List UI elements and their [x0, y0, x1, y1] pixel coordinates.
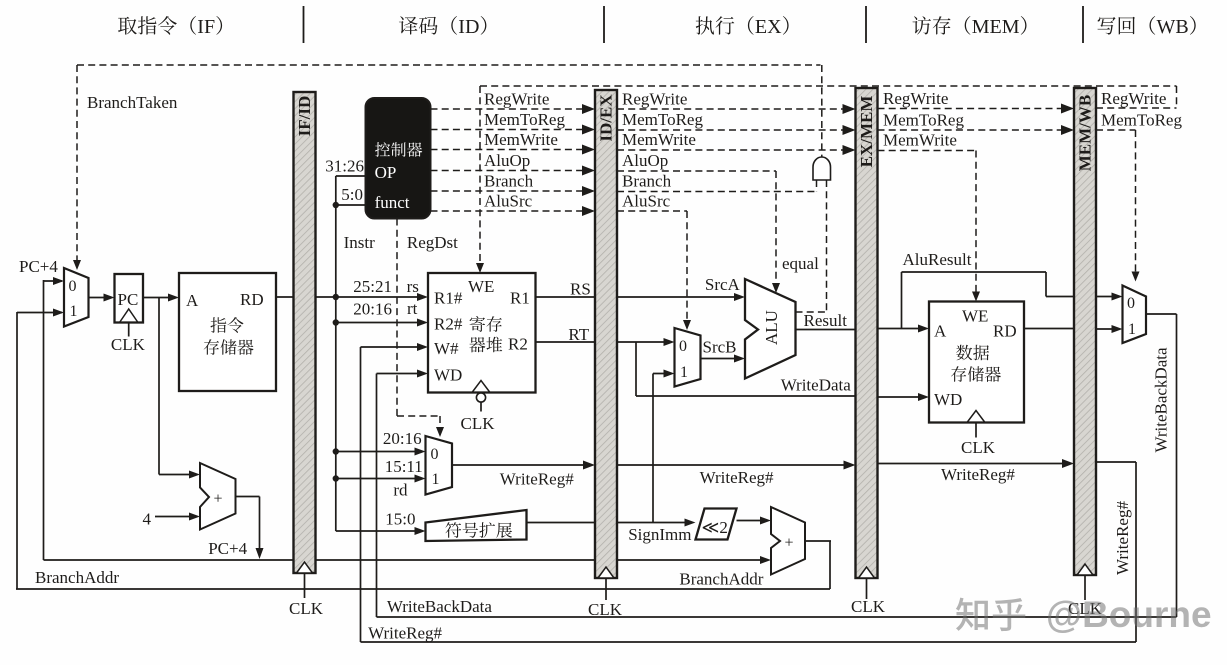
svg-text:rd: rd	[393, 481, 408, 500]
svg-text:SrcA: SrcA	[705, 275, 741, 294]
pipeline register MEM/WB	[1074, 88, 1096, 575]
wire SrcA from ID/EX to ALU	[617, 296, 742, 298]
wire AluOp EX stage down to ALU	[617, 170, 776, 172]
svg-text:RegWrite: RegWrite	[622, 90, 687, 109]
svg-text:PC+4: PC+4	[19, 257, 58, 276]
svg-text:R2: R2	[508, 335, 528, 354]
wire equal from ALU to AND gate	[796, 311, 827, 313]
svg-text:31:26: 31:26	[325, 157, 364, 176]
svg-text:Branch: Branch	[484, 172, 534, 191]
wire SignImm from ID/EX to shifter	[617, 522, 689, 524]
wire RegWrite ID stage	[431, 108, 589, 110]
wire MemToReg WB stage down to WB mux select	[1096, 129, 1136, 131]
wire PC+4 adder output drop to bottom run	[236, 496, 260, 498]
wire 15:11 to WriteReg mux 1	[336, 478, 422, 480]
svg-text:WE: WE	[962, 307, 988, 326]
svg-text:Instr: Instr	[344, 233, 376, 252]
stage label MEM	[913, 16, 951, 34]
wire R1 output RS to ID/EX	[536, 296, 597, 298]
svg-text:WriteReg#: WriteReg#	[500, 470, 574, 489]
stage label WB	[1098, 17, 1136, 35]
svg-text:20:16: 20:16	[383, 429, 422, 448]
svg-text:PC: PC	[118, 290, 139, 309]
svg-text:R1#: R1#	[434, 289, 463, 308]
wire Branch ID stage	[431, 190, 589, 192]
svg-text:0: 0	[431, 446, 439, 463]
stage label EX	[696, 16, 735, 34]
svg-text:MEM/WB: MEM/WB	[1076, 95, 1095, 172]
wire instruction memory RD to IF/ID	[276, 296, 295, 298]
wire MemWrite MEM stage down to data memory WE	[878, 150, 977, 152]
svg-text:MEM: MEM	[972, 16, 1020, 38]
svg-text:AluSrc: AluSrc	[484, 192, 533, 211]
svg-text:WE: WE	[468, 277, 494, 296]
svg-text:SignImm: SignImm	[628, 525, 691, 544]
wire Instr vertical fanout	[335, 176, 337, 531]
svg-text:WriteReg#: WriteReg#	[368, 624, 442, 643]
controller (black box)	[366, 98, 431, 219]
svg-text:BranchAddr: BranchAddr	[35, 568, 119, 587]
wire data memory RD to MEM/WB	[1024, 328, 1075, 330]
svg-text:A: A	[186, 291, 199, 310]
stage separator 3	[865, 6, 867, 43]
svg-text:1: 1	[680, 364, 688, 381]
node Instr fanout dots	[333, 202, 339, 208]
svg-text:rs: rs	[407, 277, 419, 296]
svg-text:equal: equal	[782, 254, 819, 273]
svg-text:MemToReg: MemToReg	[622, 110, 703, 129]
CLK tick MEM/WB	[1084, 575, 1086, 600]
wire 15:0 to sign extender	[336, 530, 422, 532]
svg-text:0: 0	[69, 278, 77, 295]
svg-text:CLK: CLK	[851, 597, 886, 616]
svg-text:ALU: ALU	[762, 310, 781, 345]
wire WriteReg# from EX/MEM to MEM/WB	[878, 463, 1069, 465]
wire shifter output to branch adder	[737, 520, 765, 522]
svg-text:1: 1	[70, 303, 78, 320]
wire RT branch down to WriteData	[635, 342, 637, 396]
stage separator 1	[303, 6, 305, 43]
svg-text:WB: WB	[1157, 16, 1189, 38]
svg-text:IF/ID: IF/ID	[295, 96, 314, 137]
svg-text:25:21: 25:21	[353, 277, 392, 296]
svg-text:CLK: CLK	[588, 600, 623, 619]
svg-text:A: A	[934, 322, 947, 341]
register file clock pin	[472, 381, 490, 393]
svg-text:20:16: 20:16	[353, 300, 392, 319]
wire BranchAddr feedback: bottom run from branch adder to mux1 input	[17, 312, 62, 314]
wire RegWrite EX stage	[617, 108, 848, 110]
watermark Zhihu @Bourne	[956, 594, 1212, 635]
wire RegWrite MEM stage	[878, 108, 1067, 110]
svg-text:≪2: ≪2	[702, 518, 728, 537]
wire PC mux output to PC	[89, 297, 113, 299]
svg-text:0: 0	[1127, 295, 1135, 312]
wire MemToReg ID stage	[431, 129, 589, 131]
svg-text:15:11: 15:11	[385, 457, 423, 476]
wire AluResult from EX/MEM to data memory A	[878, 328, 927, 330]
wire MemToReg MEM stage	[878, 129, 1067, 131]
data memory clock pin	[967, 411, 985, 423]
svg-text:MemWrite: MemWrite	[622, 130, 696, 149]
register file box	[428, 273, 536, 393]
svg-text:ID/EX: ID/EX	[597, 94, 616, 142]
wire MEM/WB outputs to WB mux	[1096, 296, 1120, 298]
shifter left-2 parallelogram	[696, 509, 737, 540]
svg-text:RS: RS	[570, 280, 591, 299]
wire WriteReg# from ID/EX to EX/MEM	[617, 464, 850, 466]
wire AluResult bypass around data memory to MEM/WB	[901, 272, 903, 329]
mux SrcB (0/1) in EX	[675, 328, 701, 387]
svg-text:PC+4: PC+4	[208, 539, 247, 558]
svg-text:CLK: CLK	[461, 414, 496, 433]
wire AND gate output BranchTaken up	[821, 65, 823, 157]
svg-text:WriteBackData: WriteBackData	[1151, 347, 1170, 452]
wire WriteData to EX/MEM	[636, 395, 856, 397]
svg-text:1: 1	[432, 471, 440, 488]
svg-text:RD: RD	[240, 290, 264, 309]
wire RegWrite WB stage to loop	[1096, 107, 1177, 109]
svg-text:rt: rt	[407, 299, 418, 318]
svg-text:ID: ID	[458, 16, 479, 38]
svg-text:RegDst: RegDst	[407, 233, 458, 252]
svg-text:BranchAddr: BranchAddr	[679, 570, 763, 589]
svg-text:MemWrite: MemWrite	[484, 130, 558, 149]
wire 20:16 to WriteReg mux 0	[336, 451, 422, 453]
wire ALU Result to EX/MEM	[796, 329, 857, 331]
svg-text:RegWrite: RegWrite	[883, 89, 948, 108]
wire 20:16 rt to register file R2#	[336, 322, 425, 324]
wire SignImm branch up to SrcB mux 1	[653, 373, 672, 375]
svg-text:RegWrite: RegWrite	[1101, 89, 1166, 108]
svg-text:CLK: CLK	[289, 599, 324, 618]
stage label ID	[399, 16, 438, 34]
wire BranchTaken dashed loop to PC mux select	[77, 64, 821, 66]
wire RT from ID/EX to SrcB mux 0	[617, 341, 672, 343]
wire AluSrc EX stage down to SrcB mux select	[617, 210, 687, 212]
ALU	[745, 279, 796, 379]
svg-text:WriteReg#: WriteReg#	[1113, 501, 1132, 575]
svg-text:15:0: 15:0	[385, 510, 415, 529]
mux PC-source (0/1) in IF	[64, 268, 89, 327]
wire WriteReg# feedback to register file W#	[361, 346, 426, 348]
wire R2 output RT to ID/EX	[536, 341, 597, 343]
svg-text:AluSrc: AluSrc	[622, 192, 671, 211]
svg-text:+: +	[784, 535, 793, 552]
svg-text:WD: WD	[434, 366, 462, 385]
stage label IF	[118, 16, 177, 35]
CLK tick ID/EX	[605, 578, 607, 600]
svg-text:WriteData: WriteData	[781, 376, 852, 395]
pipeline register IF/ID	[294, 92, 316, 573]
pipeline register EX/MEM	[856, 88, 878, 578]
adder branch-address in EX	[771, 507, 805, 575]
wire PC+4 feedback: mux0 input / bottom run to branch adder	[44, 280, 63, 282]
wire MemWrite EX stage	[617, 149, 848, 151]
svg-text:+: +	[213, 491, 222, 508]
wire PC to instruction memory A	[143, 297, 176, 299]
svg-text:MemToReg: MemToReg	[1101, 111, 1182, 130]
adder PC+4 in IF	[200, 463, 236, 530]
svg-text:Branch: Branch	[622, 172, 672, 191]
mux WriteReg-dest (0/1) in ID	[426, 436, 453, 495]
wire RegWrite dashed loop back to register file WE	[480, 85, 1177, 87]
svg-text:R2#: R2#	[434, 315, 463, 334]
wire sign extender output SignImm to ID/EX	[527, 522, 597, 524]
svg-text:CLK: CLK	[961, 438, 996, 457]
sign extender box	[426, 510, 527, 541]
svg-text:Result: Result	[804, 311, 848, 330]
svg-text:RT: RT	[568, 325, 589, 344]
register PC	[115, 274, 144, 323]
svg-text:funct: funct	[375, 193, 410, 212]
wire WriteData from EX/MEM to data memory WD	[878, 396, 927, 398]
svg-text:RegWrite: RegWrite	[484, 90, 549, 109]
svg-text:MemToReg: MemToReg	[883, 111, 964, 130]
stage separator 4	[1082, 6, 1084, 43]
svg-text:@Bourne: @Bourne	[1046, 594, 1212, 635]
svg-text:WD: WD	[934, 390, 962, 409]
wire SrcB mux output to ALU	[701, 358, 743, 360]
wire RegDst dashed from controller to WriteReg mux select	[396, 219, 398, 417]
svg-text:RD: RD	[993, 322, 1017, 341]
wire WriteBackData feedback to register file WD	[377, 373, 426, 375]
wire constant 4 into adder	[155, 516, 197, 518]
wire 31:26 to controller OP	[336, 175, 366, 177]
stage separator 2	[603, 6, 605, 43]
svg-text:W#: W#	[434, 339, 459, 358]
wire branch: PC value down to PC+4 adder	[158, 298, 160, 475]
data memory box	[929, 302, 1024, 423]
svg-text:R1: R1	[510, 289, 530, 308]
svg-text:5:0: 5:0	[341, 185, 363, 204]
svg-text:AluOp: AluOp	[622, 151, 668, 170]
wire AluSrc ID stage	[431, 210, 589, 212]
svg-text:AluOp: AluOp	[484, 151, 530, 170]
svg-text:MemToReg: MemToReg	[484, 110, 565, 129]
wire MemWrite ID stage	[431, 149, 589, 151]
svg-text:WriteReg#: WriteReg#	[700, 468, 774, 487]
AND gate for branch	[813, 157, 831, 180]
CLK tick EX/MEM	[866, 578, 868, 599]
svg-text:4: 4	[143, 510, 152, 529]
svg-text:CLK: CLK	[111, 335, 146, 354]
mux WriteBack (0/1) in WB	[1123, 286, 1147, 344]
svg-text:EX/MEM: EX/MEM	[857, 96, 876, 168]
wire MemToReg EX stage	[617, 129, 848, 131]
CLK tick IF/ID	[304, 573, 306, 598]
svg-text:WriteReg#: WriteReg#	[941, 465, 1015, 484]
svg-text:SrcB: SrcB	[703, 338, 737, 357]
wire Branch EX stage to AND gate	[617, 191, 817, 193]
wire WriteReg mux output to ID/EX	[452, 464, 592, 466]
instruction memory box	[179, 273, 276, 391]
wire Instr from IF/ID to register file R1#	[316, 296, 426, 298]
svg-text:WriteBackData: WriteBackData	[387, 597, 492, 616]
svg-text:1: 1	[1128, 321, 1136, 338]
svg-text:EX: EX	[755, 16, 782, 38]
wire AluOp ID stage	[431, 170, 589, 172]
svg-text:OP: OP	[375, 163, 397, 182]
wire 5:0 to controller funct	[336, 204, 366, 206]
svg-text:AluResult: AluResult	[903, 250, 972, 269]
svg-text:0: 0	[679, 338, 687, 355]
pipeline register ID/EX	[595, 90, 617, 578]
svg-text:IF: IF	[197, 16, 215, 38]
svg-text:BranchTaken: BranchTaken	[87, 93, 178, 112]
svg-text:MemWrite: MemWrite	[883, 131, 957, 150]
